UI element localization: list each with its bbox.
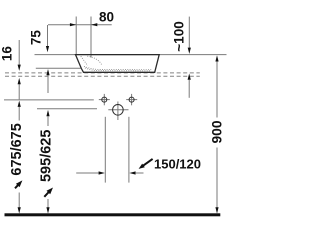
svg-text:75: 75 (29, 30, 44, 46)
svg-text:150/120: 150/120 (154, 157, 201, 172)
svg-text:80: 80 (99, 9, 114, 24)
svg-text:16: 16 (0, 46, 14, 62)
svg-text:675/675: 675/675 (9, 123, 25, 175)
svg-text:595/625: 595/625 (38, 130, 54, 182)
svg-text:900: 900 (209, 120, 224, 143)
svg-text:~100: ~100 (172, 21, 187, 51)
